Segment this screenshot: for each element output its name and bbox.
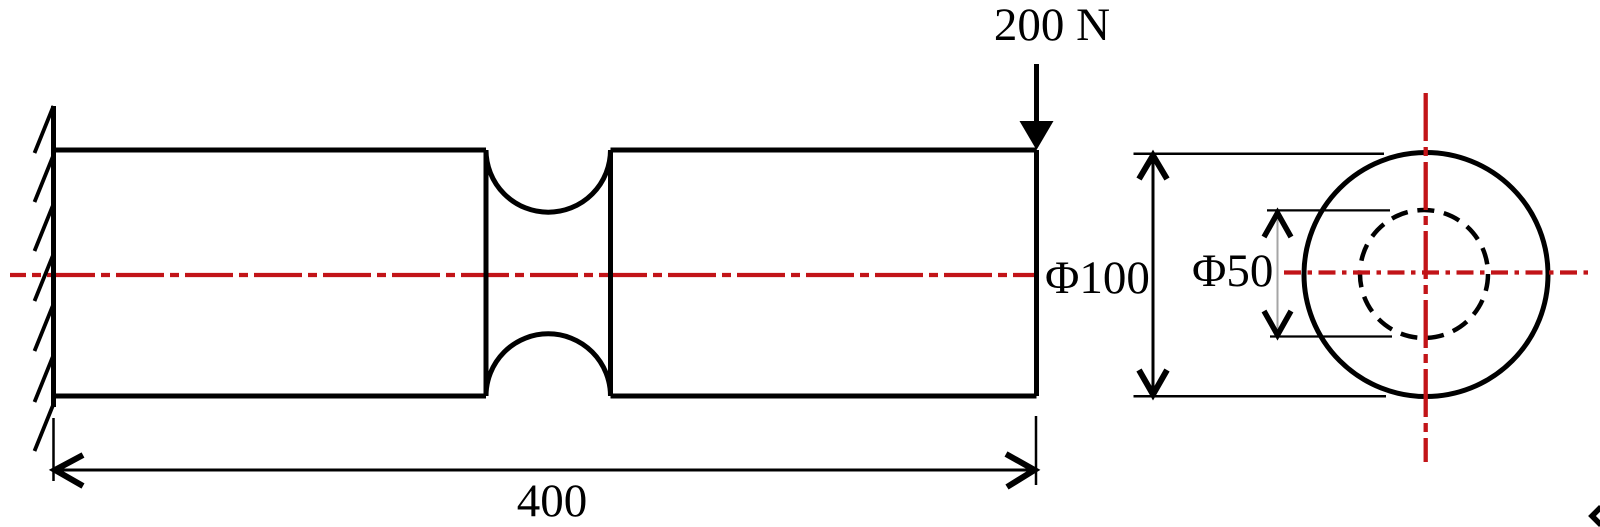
wall hatch 3 bbox=[35, 204, 54, 251]
wall hatch 6 bbox=[35, 355, 54, 402]
dim Phi50 top extension line bbox=[1267, 209, 1390, 211]
groove top fillet arc bbox=[486, 150, 611, 212]
force arrowhead bbox=[1020, 121, 1054, 150]
dim 400 right arrowhead bbox=[1006, 454, 1035, 487]
dim 400 left arrowhead bbox=[55, 455, 83, 486]
dim Phi100 bottom arrowhead bbox=[1139, 370, 1167, 395]
end view outer circle bbox=[1304, 153, 1548, 397]
groove bottom fillet arc bbox=[486, 334, 611, 396]
force arrow shaft bbox=[1034, 64, 1039, 127]
groove right shoulder edge bbox=[608, 150, 613, 396]
dim 400 dimension line bbox=[54, 469, 1037, 472]
dim Phi100 top extension line bbox=[1134, 152, 1385, 155]
end view vertical centerline (red dash-dot) bbox=[1424, 93, 1428, 462]
dim Phi100 top arrowhead bbox=[1139, 156, 1167, 180]
dim Phi50 dimension line (gray) bbox=[1277, 215, 1279, 335]
shaft bottom edge left section bbox=[54, 394, 487, 399]
svg-text:Φ50: Φ50 bbox=[1192, 245, 1273, 297]
dim Phi50 top arrowhead bbox=[1264, 213, 1291, 237]
clipped arrowhead at bottom-right corner bbox=[1592, 507, 1600, 525]
shaft top edge left section bbox=[54, 148, 487, 153]
wall hatch 5 bbox=[35, 304, 54, 351]
dim Phi50 bottom extension line bbox=[1270, 335, 1392, 337]
end view horizontal centerline (red dash-dot) bbox=[1284, 270, 1594, 274]
dim Phi100 dimension line bbox=[1152, 156, 1155, 393]
end view groove circle (hidden, dashed) bbox=[1360, 210, 1488, 338]
wall hatch 7 bbox=[35, 404, 54, 451]
shaft bottom edge right section bbox=[611, 394, 1037, 399]
dim 400 left extension line bbox=[52, 418, 55, 481]
dim Phi100 bottom extension line bbox=[1134, 395, 1387, 398]
svg-text:Φ100: Φ100 bbox=[1045, 252, 1150, 304]
shaft centerline (red dash-dot) bbox=[10, 273, 1036, 277]
svg-text:200 N: 200 N bbox=[994, 0, 1110, 51]
svg-text:400: 400 bbox=[517, 475, 588, 527]
wall hatch 4 bbox=[35, 254, 54, 301]
dim Phi50 bottom arrowhead bbox=[1264, 311, 1291, 335]
fixed wall line bbox=[51, 106, 56, 407]
wall hatch 2 bbox=[35, 155, 54, 202]
groove left shoulder edge bbox=[484, 150, 489, 396]
shaft top edge right section bbox=[611, 148, 1037, 153]
shaft right end edge bbox=[1034, 150, 1039, 396]
wall hatch 1 bbox=[35, 106, 54, 153]
dim 400 right extension line bbox=[1035, 416, 1038, 485]
